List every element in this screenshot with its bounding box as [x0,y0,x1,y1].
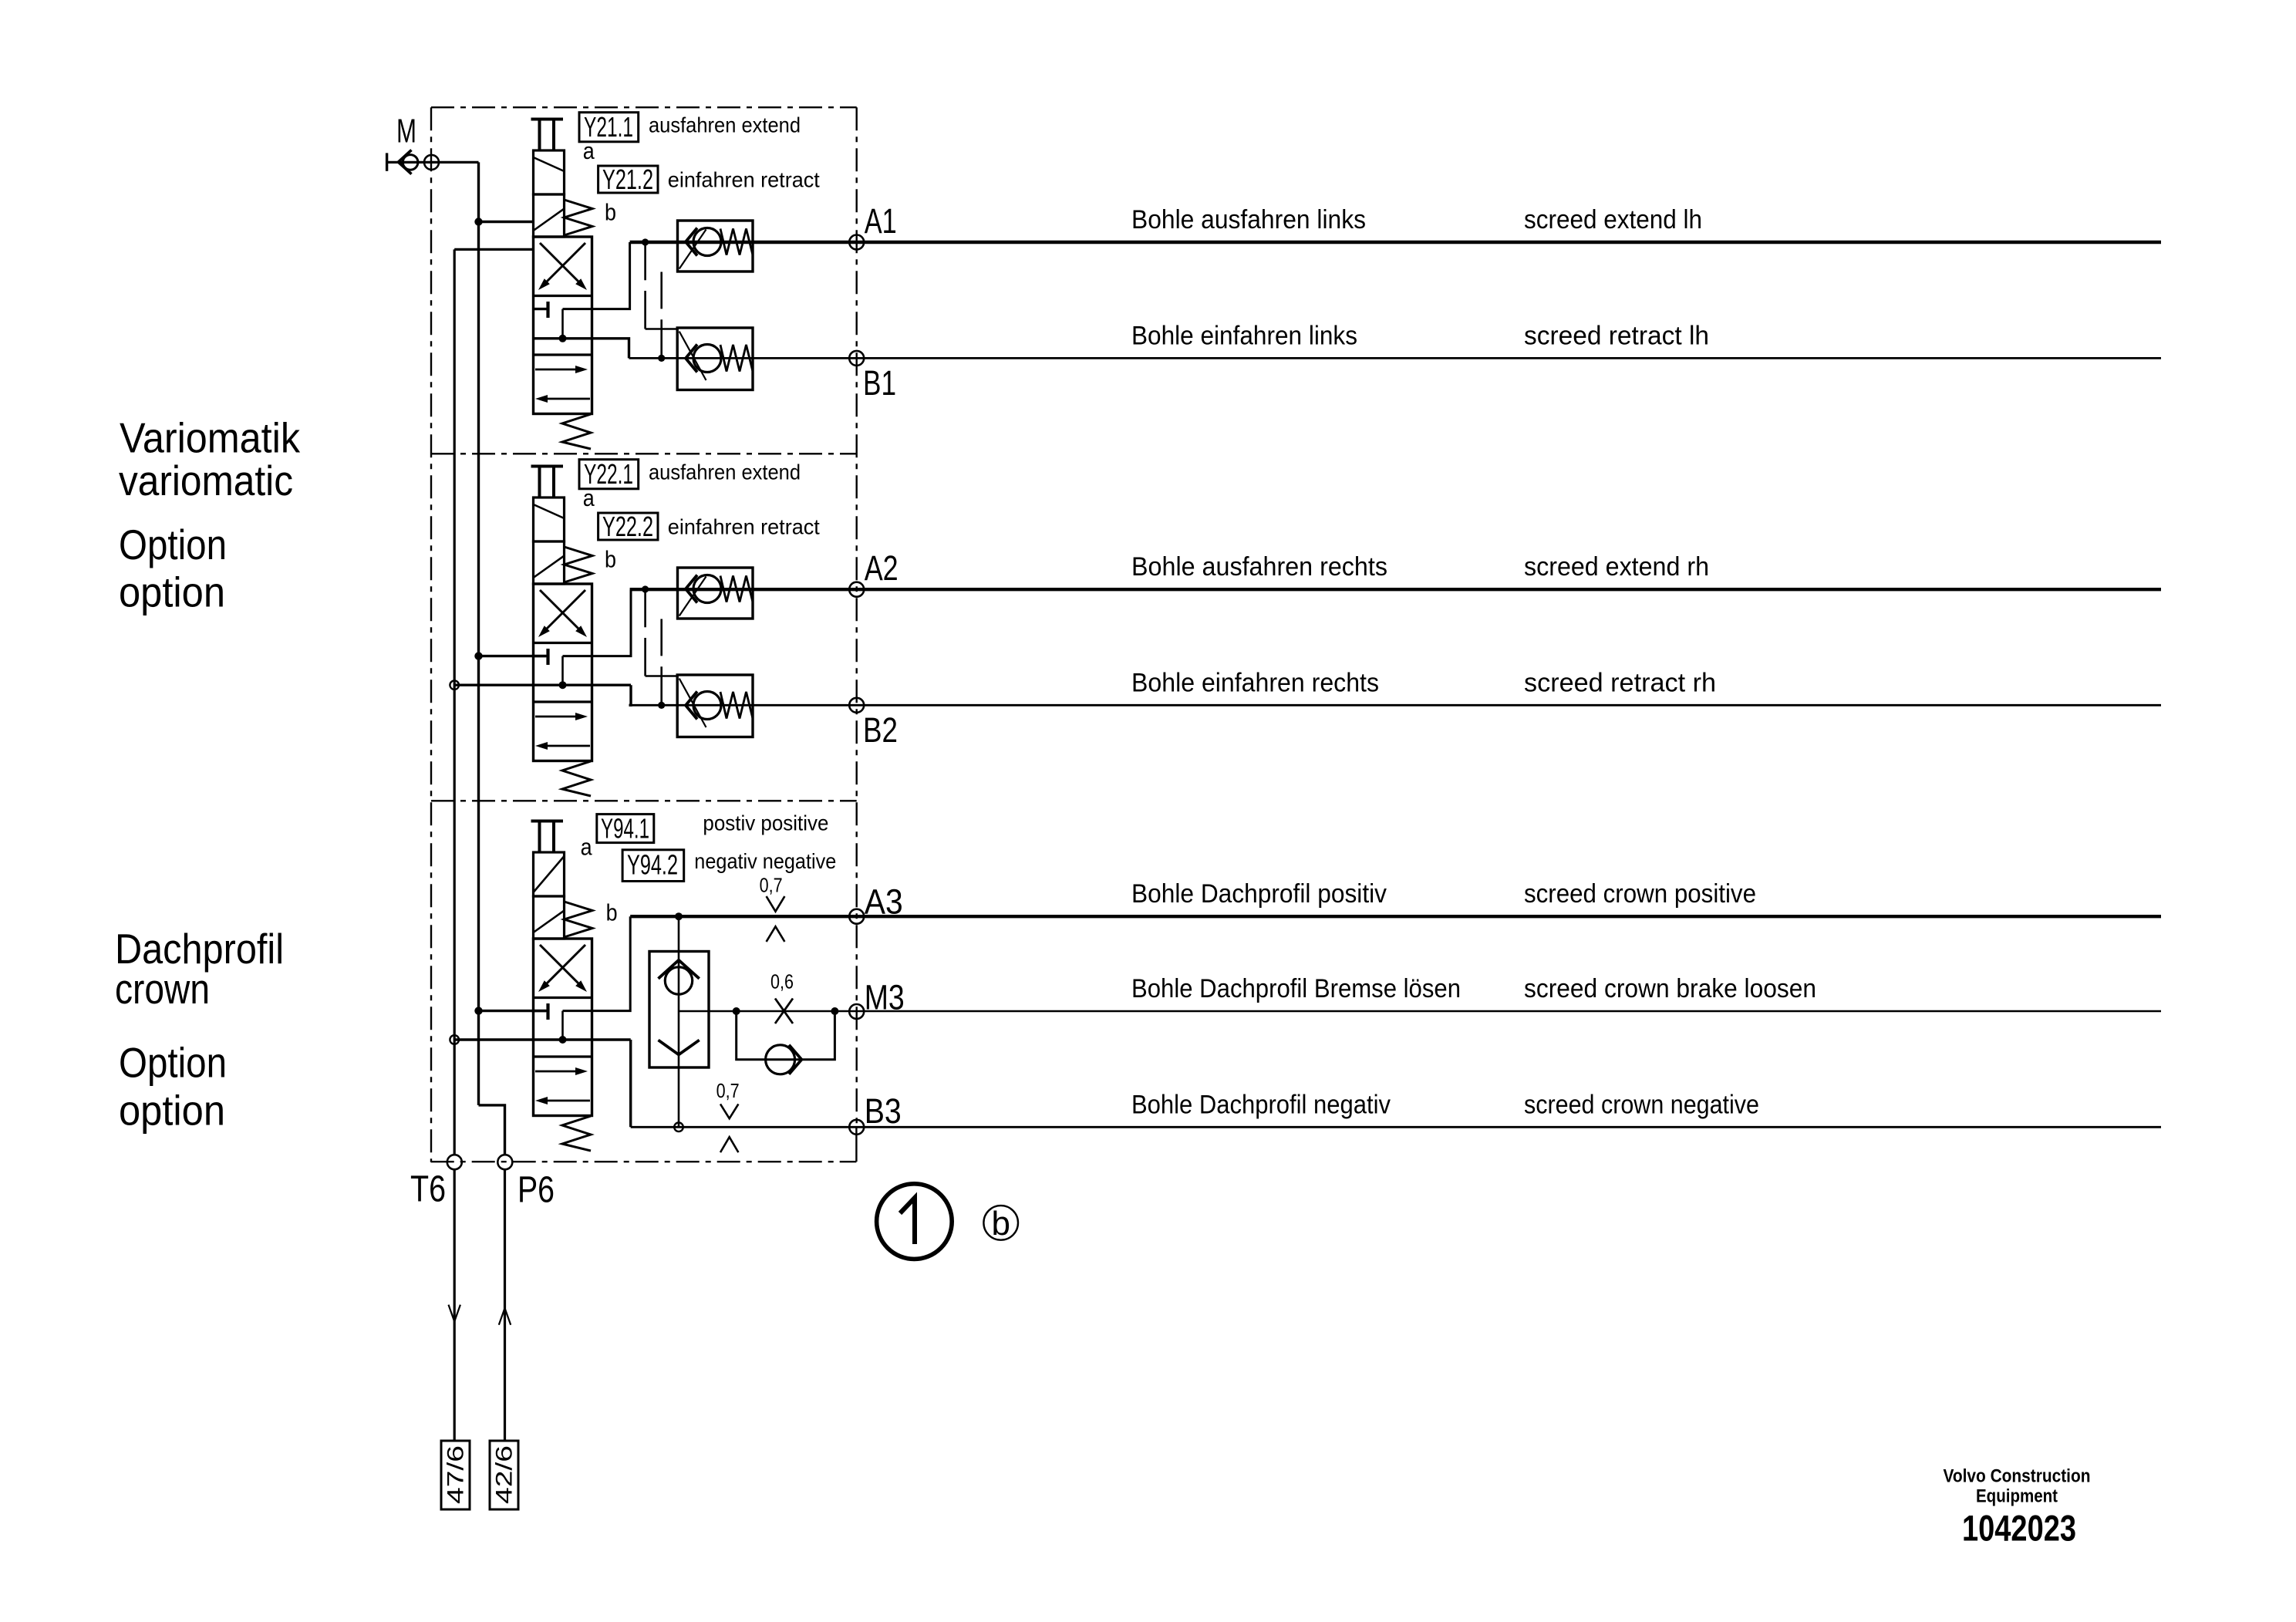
svg-text:Y22.2: Y22.2 [602,511,653,542]
pilot check valve CV1B ball [693,345,721,373]
valve V1 blocked port T-bar (center position) [534,308,548,310]
svg-text:screed retract rh: screed retract rh [1524,668,1716,697]
svg-text:M: M [396,112,416,150]
arrow up on P6 line [499,1308,511,1325]
svg-text:Equipment: Equipment [1976,1486,2058,1507]
valve V2 main body (3 positions) [534,584,592,761]
svg-text:variomatic: variomatic [119,457,293,504]
svg-text:Volvo Construction: Volvo Construction [1944,1465,2091,1486]
wire A1 output line [630,241,2161,244]
svg-text:Bohle ausfahren links: Bohle ausfahren links [1131,205,1366,234]
wire T through line block 2 [454,684,631,686]
svg-text:Bohle einfahren links: Bohle einfahren links [1131,321,1357,350]
pilot check valve CV2B box [677,675,753,737]
svg-text:B3: B3 [865,1091,902,1131]
wire valve V1 B-output to B1 line [534,339,629,359]
manifold enclosure dashed border (top edge) [431,106,857,108]
pressure line P (jog to P6) [479,1105,505,1155]
pilot check valve CV2B ball [693,692,721,720]
svg-text:b: b [606,899,618,926]
valve V2 blocked port T-bar (center position) [534,655,548,657]
node T junction block 2 [450,680,459,690]
shuttle lower seat [659,1040,700,1055]
svg-text:0,6: 0,6 [770,970,794,993]
tag box Y21.1 [579,113,639,142]
wire A3 output line [630,915,2161,918]
wire P supply to valve V2 [479,655,547,657]
valve V2 return spring (lower) [562,761,591,796]
valve V3 return spring (lower) [562,1116,591,1151]
bypass check valve seat [789,1045,801,1074]
node P junction block 3 [474,1007,482,1014]
svg-text:b: b [605,546,616,573]
node pilot tap on B2 line [658,702,665,709]
valve V1 plunger actuator [531,118,564,121]
svg-text:ausfahren extend: ausfahren extend [649,460,801,484]
solenoid Y21.1 box (pilot stage a) [534,150,565,194]
pilot check valve CV1A seat [686,228,697,256]
svg-text:Y21.2: Y21.2 [602,164,653,195]
wire B1 output line [629,357,2162,359]
svg-text:b: b [991,1205,1010,1243]
port B2 circle [849,698,864,713]
svg-text:P6: P6 [518,1169,555,1210]
valve V3 plunger actuator [531,820,564,823]
wire valve V2 A-output to A2 line [563,589,632,656]
svg-text:Bohle Dachprofil positiv: Bohle Dachprofil positiv [1131,879,1387,909]
pilot line from B1 to CV1A (dashed) [660,272,663,309]
wire B3 output line [631,1126,2161,1128]
port B3 circle [849,1120,864,1135]
pilot check valve CV2A box [678,568,754,619]
pilot check valve CV1B pilot diagonal [679,332,706,380]
pilot check valve CV1A spring [720,229,753,255]
node M3 bypass left junction [733,1007,740,1015]
svg-text:Option: Option [119,521,227,568]
arrow down on T6 line [449,1305,460,1322]
svg-text:screed crown brake loosen: screed crown brake loosen [1524,974,1816,1003]
tag box Y94.1 [597,814,654,843]
svg-text:a: a [581,834,593,861]
test point check symbol at M (seat) [398,150,411,174]
solenoid Y94.1 box (pilot stage a) [534,852,565,896]
pilot check valve CV1A ball [693,228,721,256]
svg-text:Y94.2: Y94.2 [627,849,678,881]
node M3 bypass right junction [831,1007,838,1015]
pilot check valve CV1B box [677,328,753,390]
valve V3 crossed arrows (position a) [540,945,583,988]
svg-text:Y22.1: Y22.1 [584,458,633,490]
wire valve V3 A-output to A3 line [563,916,631,1010]
pressure line P (vertical) [477,162,480,1105]
solenoid Y21.2 box (pilot stage b) [534,194,565,237]
valve V1 internal pilot drop [561,309,564,339]
shuttle check block box [649,952,709,1068]
solenoid Y22.2 box (pilot stage b) [534,541,565,584]
wire B3 port to bottom border [855,1127,857,1162]
pilot check valve CV2B spring [720,692,753,719]
tag box Y22.2 [598,513,658,540]
throttle orifice 0,6 on M3 [775,999,793,1024]
plug tick at M line end [386,153,388,170]
svg-text:A1: A1 [865,201,897,241]
node V2 internal pilot junction [559,681,567,689]
svg-text:screed crown negative: screed crown negative [1524,1090,1759,1119]
pilot line from B2 to CV2A (dashed) [660,619,663,656]
wire T through line block 3 [454,1038,631,1040]
tag box Y94.2 [622,850,684,882]
valve V1 main body (3 positions) [534,237,592,414]
wire M port line [387,161,479,164]
pilot line from A1 to CV1B (dashed) [644,242,646,280]
svg-text:Bohle Dachprofil negativ: Bohle Dachprofil negativ [1131,1090,1391,1119]
svg-text:A2: A2 [865,548,899,588]
svg-text:0,7: 0,7 [760,874,783,897]
valve V1 return spring (lower) [562,414,591,449]
svg-text:A3: A3 [865,882,903,922]
pilot check valve CV1B seat [686,345,697,373]
svg-text:einfahren retract: einfahren retract [668,515,820,539]
solenoid Y94.2 box (pilot stage b) [534,896,565,939]
node pilot tap on A1 line [642,238,649,245]
port M circle [424,155,439,170]
pilot check valve CV2B pilot diagonal [679,679,706,727]
shuttle upper ball [665,967,692,994]
svg-text:Bohle Dachprofil Bremse lösen: Bohle Dachprofil Bremse lösen [1131,974,1461,1003]
svg-text:postiv positive: postiv positive [703,811,828,835]
svg-text:47/6: 47/6 [443,1445,469,1504]
svg-text:negativ negative: negativ negative [694,849,836,873]
svg-text:b: b [605,199,616,226]
svg-text:B1: B1 [863,363,896,403]
wire P supply to valve V3 [479,1010,547,1012]
tag box Y21.2 [598,166,658,193]
wire M3 output line [679,1010,2161,1013]
pilot check valve CV1B spring [720,345,753,372]
wire T6 down line [453,1169,456,1441]
svg-text:screed extend lh: screed extend lh [1524,205,1702,234]
svg-text:B2: B2 [863,710,898,750]
wire B2 output line [629,704,2162,706]
manifold enclosure dashed border (left edge) [430,107,432,1162]
node pilot tap on A2 line [642,585,649,592]
valve V3 internal pilot drop [561,1011,564,1040]
tag box Y22.1 [579,460,639,489]
svg-text:ausfahren extend: ausfahren extend [649,113,801,137]
valve V2 internal pilot drop [561,656,564,686]
valve V1 parallel arrows (position b) [535,369,580,371]
svg-text:Variomatik: Variomatik [120,413,300,461]
destination tag box 42/6 [490,1441,518,1509]
port A3 circle [849,909,864,924]
svg-text:screed retract lh: screed retract lh [1524,321,1709,350]
node shuttle top on A3 line [675,912,683,920]
svg-text:Option: Option [119,1039,227,1087]
tank line T (vertical) [453,249,456,1155]
manifold enclosure dashed border (right edge) [855,107,857,1127]
manifold enclosure dashed border (bottom edge) [431,1161,857,1162]
bypass check valve ball [766,1045,795,1074]
svg-text:option: option [119,1086,225,1134]
valve V2 plunger actuator [531,465,564,468]
pilot check valve CV2A spring [720,576,753,602]
solenoid Y22.1 box (pilot stage a) [534,497,565,541]
shuttle upper seat [659,960,700,979]
svg-text:Y94.1: Y94.1 [601,813,649,845]
wire valve V3 B-output to B3 line [629,1040,632,1127]
svg-text:einfahren retract: einfahren retract [668,168,820,192]
destination tag box 47/6 [441,1441,470,1509]
valve V2 pilot spring (upper) [565,547,593,582]
port M3 circle [849,1004,864,1019]
section separator dashed line 1 [431,453,857,454]
valve V3 pilot spring (upper) [565,902,593,937]
relief setting symbol 0,7 on A3 (chevrons) [767,896,785,912]
valve V1 crossed arrows (position a) [540,243,583,286]
pilot check valve CV2A ball [693,575,721,603]
pilot check valve CV1A pilot diagonal [679,230,706,269]
svg-text:screed crown positive: screed crown positive [1524,879,1756,909]
section separator dashed line 2 [431,800,857,801]
svg-text:option: option [119,568,225,616]
pilot check valve CV1A box [678,221,754,271]
wire P6 down line [504,1169,506,1441]
valve V2 parallel arrows (position b) [535,716,580,718]
valve V3 blocked port T-bar (center position) [534,1010,548,1012]
wire valve V2 B-output to B2 line [629,685,632,705]
port B1 circle [849,351,864,366]
svg-text:1042023: 1042023 [1962,1508,2076,1549]
valve V3 main body (3 positions) [534,939,592,1116]
node V1 internal pilot junction [559,335,567,342]
node T junction block 3 [450,1035,459,1044]
sheet number circle 1 [877,1184,952,1259]
svg-text:T6: T6 [410,1169,446,1210]
port P6 circle [497,1155,512,1169]
valve V2 crossed arrows (position a) [540,590,583,633]
test point check symbol at M (ball) [403,155,418,170]
node pilot tap on B1 line [658,355,665,362]
pilot line from A2 to CV2B (dashed) [644,589,646,627]
pilot check valve CV2A pilot diagonal [679,577,706,616]
svg-text:Bohle einfahren rechts: Bohle einfahren rechts [1131,668,1379,697]
svg-text:Bohle ausfahren rechts: Bohle ausfahren rechts [1131,552,1387,582]
svg-text:Y21.1: Y21.1 [584,111,633,143]
svg-text:42/6: 42/6 [492,1445,518,1504]
port A1 circle [849,235,864,250]
svg-text:screed extend rh: screed extend rh [1524,552,1709,582]
node P junction block 2 [474,652,482,659]
node V3 internal pilot junction [559,1036,567,1044]
pilot check valve CV2B seat [686,692,697,720]
svg-text:M3: M3 [865,977,905,1017]
valve V1 pilot spring (upper) [565,200,593,235]
wire A2 output line [630,588,2161,591]
valve V3 parallel arrows (position b) [535,1071,580,1073]
node P junction block 1 [474,218,482,225]
svg-text:crown: crown [115,965,210,1013]
relief setting symbol 0,7 on B3 (chevrons) [720,1104,738,1118]
wire P supply to valve V1 pilot [479,221,534,223]
port A2 circle [849,582,864,597]
svg-text:0,7: 0,7 [716,1079,740,1102]
node shuttle bottom junction on B3 line [674,1123,683,1132]
wire M3 bypass loop [737,1011,835,1060]
wire T connection block 1 [454,248,533,251]
port T6 circle [447,1155,462,1169]
pilot check valve CV2A seat [686,575,697,603]
revision circle b [983,1206,1018,1240]
shuttle check centerline [678,916,680,1127]
wire valve V1 A-output to A1 line [563,242,630,309]
